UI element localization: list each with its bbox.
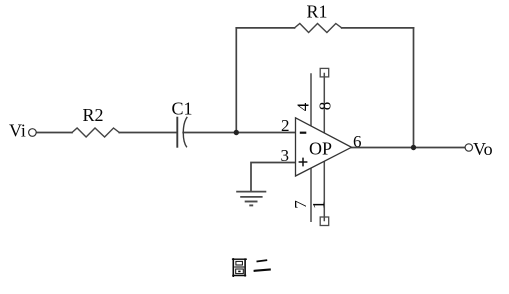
svg-text:C1: C1 [172, 99, 193, 119]
svg-text:OP: OP [309, 139, 332, 159]
svg-text:R2: R2 [83, 105, 104, 125]
svg-text:8: 8 [315, 102, 334, 111]
svg-text:Vo: Vo [473, 139, 493, 159]
svg-text:3: 3 [281, 146, 290, 165]
svg-text:R1: R1 [307, 1, 328, 21]
svg-text:6: 6 [353, 132, 362, 151]
svg-text:1: 1 [309, 201, 328, 210]
svg-text:Vi: Vi [9, 121, 26, 141]
svg-text:2: 2 [281, 116, 290, 135]
svg-text:4: 4 [294, 102, 313, 111]
svg-text:7: 7 [291, 200, 310, 209]
